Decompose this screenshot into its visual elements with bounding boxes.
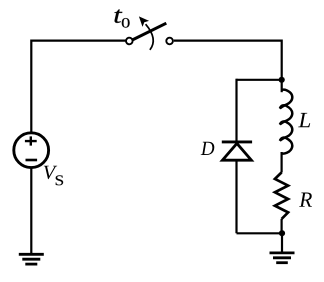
switch left contact circle xyxy=(126,38,133,45)
label L xyxy=(298,113,310,127)
switch right contact circle xyxy=(166,38,173,45)
diode D triangle xyxy=(222,143,251,160)
label R xyxy=(299,193,312,207)
inductor L coil xyxy=(280,90,292,154)
wire diode branch horizontal top xyxy=(237,79,282,81)
voltage source VS circle xyxy=(14,133,49,168)
minus sign inside source xyxy=(26,159,38,162)
switch blade xyxy=(132,23,166,40)
wire left vertical (source top) xyxy=(30,40,32,133)
wire resistor to bottom node xyxy=(281,219,283,233)
wire top-right horizontal xyxy=(174,39,282,41)
wire between coil and resistor xyxy=(281,152,283,173)
ground right xyxy=(270,251,295,254)
wire node to right ground xyxy=(281,233,283,252)
node junction dot bottom xyxy=(279,230,285,236)
wire bottom horizontal to node xyxy=(237,232,283,234)
label VS xyxy=(44,166,57,179)
plus sign inside source xyxy=(25,136,37,145)
label t0 xyxy=(115,10,123,23)
ground left xyxy=(19,253,44,256)
wire diode branch vertical upper xyxy=(235,79,237,141)
wire diode branch vertical lower xyxy=(235,160,237,233)
node junction dot top xyxy=(279,77,285,83)
resistor R zigzag xyxy=(275,172,288,219)
switch arrowhead xyxy=(139,16,149,27)
label D xyxy=(201,142,215,155)
switch action arc xyxy=(146,24,154,50)
wire top-left horizontal xyxy=(31,39,125,41)
wire left vertical (source bottom) xyxy=(30,168,32,254)
wire right vertical top xyxy=(281,40,283,93)
diode D cathode bar xyxy=(222,140,252,143)
